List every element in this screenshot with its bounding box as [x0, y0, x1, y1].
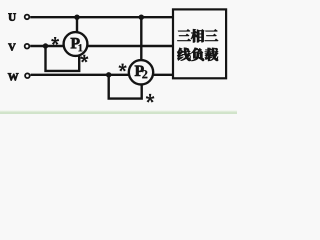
node V-P1 junction — [43, 43, 48, 48]
label P2 subscript 2 — [142, 70, 147, 78]
polarity mark * (P1 voltage coil) — [51, 37, 59, 45]
node W-P2 junction — [106, 72, 111, 77]
load text 三 (2nd) — [205, 29, 218, 40]
wire V line right segment — [88, 45, 174, 47]
wire U line — [30, 16, 173, 18]
node U-P1 junction — [74, 15, 79, 20]
wire W line right segment — [153, 74, 173, 76]
load box (three-phase three-wire load) — [173, 9, 226, 78]
label P1 subscript 1 — [78, 44, 82, 51]
label W (phase W) — [8, 73, 18, 80]
polarity mark * (P2 current coil) — [146, 94, 155, 103]
label U (phase U) — [8, 13, 15, 20]
label P2 — [135, 66, 144, 76]
label P1 — [71, 38, 80, 48]
wire U to P2 voltage tap (crosses V line) — [140, 17, 142, 60]
wattmeter P1 — [64, 32, 88, 56]
load text 负 — [191, 48, 204, 61]
terminal U — [25, 15, 30, 20]
wire V line left segment — [30, 45, 63, 47]
wire W line left segment — [31, 74, 129, 76]
terminal W — [25, 73, 30, 78]
polarity mark * (P2 voltage coil) — [119, 64, 127, 72]
wire P1 voltage loop — [46, 46, 80, 71]
polarity mark * (P1 current coil) — [80, 55, 88, 63]
terminal V — [25, 44, 30, 49]
wire P2 voltage loop — [109, 75, 142, 99]
load text 相 — [191, 29, 204, 42]
load text 三 — [178, 29, 191, 40]
label V (phase V) — [8, 44, 15, 51]
wattmeter P2 — [129, 60, 153, 84]
wire U to P1 voltage tap — [76, 17, 78, 32]
node U-P2 junction — [139, 15, 144, 20]
load text 载 — [205, 48, 218, 61]
page rule (green baseline strip) — [0, 110, 237, 114]
load text 线 — [177, 48, 190, 61]
